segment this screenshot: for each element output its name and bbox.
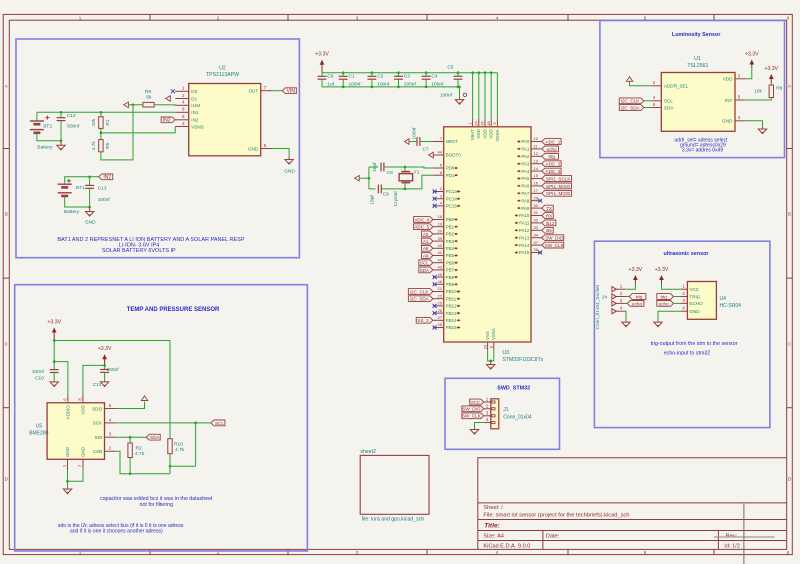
svg-text:PA15: PA15 xyxy=(519,250,530,255)
U3 pin 29 PA8 stub xyxy=(531,200,542,202)
svg-text:VDD: VDD xyxy=(482,129,487,138)
wire-entry arrow NRST xyxy=(404,139,409,145)
frame tick right 1 xyxy=(787,148,793,150)
wire C13 top lead xyxy=(89,177,91,186)
svg-text:PA13: PA13 xyxy=(519,235,530,240)
global label RX xyxy=(542,213,553,219)
unconnected circle near gnd xyxy=(463,93,466,96)
wire C2 bottom lead xyxy=(371,79,373,87)
U3 pin 37 PA14 stub xyxy=(531,244,542,246)
svg-text:3: 3 xyxy=(356,15,359,20)
junction rail C4 bottom xyxy=(425,86,428,89)
svg-text:SCK: SCK xyxy=(93,421,103,426)
wire VDD rail drop 24 xyxy=(478,73,480,119)
U3 BOOT0 link xyxy=(432,154,434,156)
junction rail drop 24 xyxy=(477,71,480,74)
wire U5 gnd drop xyxy=(67,481,69,488)
svg-text:VDDA: VDDA xyxy=(495,129,500,141)
capacitor C6 xyxy=(318,75,327,77)
wire crystal left link xyxy=(369,166,378,168)
title block row line 2 xyxy=(478,519,787,521)
svg-text:TX: TX xyxy=(546,206,552,211)
U3 pin 40 PB4 stub xyxy=(433,247,444,249)
svg-text:38: 38 xyxy=(534,247,539,252)
svg-text:VIN: VIN xyxy=(287,89,296,95)
svg-text:42: 42 xyxy=(438,257,443,262)
U2 pin 1 D0 stub xyxy=(175,90,189,92)
svg-text:BT2: BT2 xyxy=(43,124,52,130)
no-connect U3 PA15 xyxy=(538,251,542,255)
svg-text:28: 28 xyxy=(438,322,443,327)
frame tick right 2 xyxy=(787,277,793,279)
svg-text:13: 13 xyxy=(534,158,539,163)
wire U4 VCC to +3.3V xyxy=(662,283,681,289)
wire-entry arrow U2 D1 xyxy=(166,96,171,102)
svg-text:4.7k: 4.7k xyxy=(91,141,97,151)
U4 pin 2 TRIG stub xyxy=(680,296,687,298)
svg-text:+3.3V: +3.3V xyxy=(764,66,778,72)
frame tick bottom 4 xyxy=(567,549,569,554)
U4 pin 4 GND stub xyxy=(680,310,687,312)
junction rail C1 top xyxy=(342,71,345,74)
wire C1 top lead xyxy=(342,73,344,77)
svg-text:3: 3 xyxy=(356,550,359,555)
svg-text:PA8: PA8 xyxy=(521,198,530,203)
J4 pin 1 line xyxy=(615,288,626,290)
svg-text:R10: R10 xyxy=(174,441,183,447)
U2 pin 3 VSNS stub xyxy=(175,126,189,128)
global label A9 xyxy=(421,253,432,259)
U3 pin 22 PB11 stub xyxy=(433,298,444,300)
no-connect U3 PB12 xyxy=(433,304,437,308)
svg-text:SW_CLK: SW_CLK xyxy=(545,243,565,248)
svg-text:46: 46 xyxy=(438,279,443,284)
svg-text:27: 27 xyxy=(438,315,443,320)
global label SW_CLK xyxy=(542,242,564,248)
wire R10 bottom lead xyxy=(169,454,171,474)
resistor R1 xyxy=(99,117,103,129)
wire VDD rail drop 48 xyxy=(490,73,492,119)
wire J4 pin3 to echo xyxy=(626,302,627,304)
svg-text:C3: C3 xyxy=(404,74,410,80)
U1 pin 4 SCL stub xyxy=(651,100,661,102)
title block gray rev line xyxy=(714,536,775,538)
wire VSS down xyxy=(488,350,494,361)
junction rail C1 bottom xyxy=(342,86,345,89)
global label echo (J4) xyxy=(627,301,644,307)
global label SPI1_MISO xyxy=(542,183,572,189)
svg-text:10k: 10k xyxy=(91,118,97,126)
U2 pin 4 ILIM stub xyxy=(175,104,189,106)
frame tick left 2 xyxy=(3,277,9,279)
ground U1 xyxy=(762,128,764,130)
junction VSS/VSSA gnd xyxy=(489,360,492,363)
svg-text:48: 48 xyxy=(486,121,491,126)
frame tick top 2 xyxy=(287,14,289,20)
svg-text:44: 44 xyxy=(438,150,443,155)
svg-text:2: 2 xyxy=(217,15,220,20)
SWD section box xyxy=(445,378,560,449)
frame tick left 3 xyxy=(3,407,9,409)
capacitor C11 xyxy=(100,369,109,371)
U1 pin 1 VDD stub xyxy=(735,78,746,80)
svg-text:D1: D1 xyxy=(191,96,197,101)
svg-text:PB1: PB1 xyxy=(446,224,455,229)
svg-text:Battery: Battery xyxy=(37,145,53,151)
global label SW_DIO xyxy=(542,235,564,241)
wire SDA link xyxy=(644,107,652,109)
luminosity section box xyxy=(600,21,785,158)
wire C7 to NRST xyxy=(420,141,433,143)
svg-text:100nf: 100nf xyxy=(349,81,362,87)
svg-text:CSB: CSB xyxy=(93,449,102,454)
global label B5 xyxy=(542,227,553,233)
no-connect U3 PB15 xyxy=(433,326,437,330)
svg-text:6: 6 xyxy=(787,15,790,20)
svg-text:VDD: VDD xyxy=(489,129,494,138)
frame tick top 3 xyxy=(426,14,428,20)
wire crystal bottom net xyxy=(381,175,433,189)
J1 pin 4 stub xyxy=(484,422,491,424)
junction rail C4 top xyxy=(425,71,428,74)
svg-text:A0: A0 xyxy=(423,232,429,237)
frame tick top 4 xyxy=(567,14,569,20)
op-amp U2 body xyxy=(189,84,261,156)
svg-text:39: 39 xyxy=(438,236,443,241)
battery/solar section box xyxy=(16,39,299,258)
svg-text:R2: R2 xyxy=(136,445,142,451)
wire BT1 minus to gnd xyxy=(65,196,90,207)
U3 bottom pin 8 VSSA stub xyxy=(493,342,495,350)
global label VIN xyxy=(282,88,296,94)
svg-text:SCL: SCL xyxy=(664,99,673,104)
svg-text:5: 5 xyxy=(644,15,647,20)
svg-text:PB14: PB14 xyxy=(446,318,457,323)
svg-text:not for filtering: not for filtering xyxy=(140,502,174,508)
J1 pin 4 socket mark xyxy=(492,421,495,423)
junction R1/R5/VSNS xyxy=(100,132,103,135)
svg-text:SDI: SDI xyxy=(95,435,103,440)
wire-entry arrow BOOT0 xyxy=(429,152,434,158)
global label SW_CLK (J1) xyxy=(462,413,484,419)
wire R10 top lead xyxy=(169,341,171,439)
U5 pin 2 CSB stub xyxy=(105,450,116,452)
junction crystal top xyxy=(404,166,407,169)
wire cap bank top rail xyxy=(322,72,497,74)
title block outline xyxy=(478,458,787,550)
wire to VDD pin xyxy=(83,365,105,394)
svg-text:PA6: PA6 xyxy=(521,184,530,189)
svg-text:PB2: PB2 xyxy=(446,232,455,237)
wire C10 bottom lead xyxy=(53,373,55,382)
svg-text:OUT: OUT xyxy=(248,89,258,94)
wire U1 GND run xyxy=(746,121,763,128)
U3 pin 33 PA12 stub xyxy=(531,229,542,231)
global label A0 xyxy=(421,231,432,237)
svg-text:SW_DIO: SW_DIO xyxy=(545,236,564,241)
U3 pin 26 PB13 stub xyxy=(433,312,444,314)
svg-text:PB15: PB15 xyxy=(446,325,457,330)
global label VCC (J1) xyxy=(470,399,484,405)
global label SCL (U5) xyxy=(211,420,225,426)
wire R1 bottom lead xyxy=(100,128,102,133)
wire +3.3V down xyxy=(53,341,55,370)
capacitor C4 xyxy=(422,75,431,77)
wire C6 bottom lead xyxy=(321,79,323,87)
svg-text:echo-input to stm32: echo-input to stm32 xyxy=(664,351,711,357)
junction rail C5 bottom xyxy=(457,86,460,89)
ground BT2/C12 xyxy=(60,141,62,146)
svg-text:C12: C12 xyxy=(67,113,76,119)
wire U4 echo link xyxy=(674,302,681,304)
junction VDDIO branch xyxy=(53,360,56,363)
svg-text:TSL2561: TSL2561 xyxy=(687,63,708,69)
svg-text:VSS: VSS xyxy=(485,331,490,340)
svg-text:IN2: IN2 xyxy=(103,175,111,181)
frame tick top 5 xyxy=(713,14,715,20)
wire arrow to crystal xyxy=(360,177,369,179)
power +3.3V rail xyxy=(321,63,323,73)
svg-text:trig: trig xyxy=(660,294,667,299)
svg-text:100nf: 100nf xyxy=(440,93,453,99)
global label B12 xyxy=(542,220,556,226)
svg-text:33: 33 xyxy=(534,225,539,230)
capacitor C5 xyxy=(454,75,463,77)
capacitor C12 xyxy=(57,117,66,119)
svg-text:PA11: PA11 xyxy=(519,221,530,226)
junction rail C5 top xyxy=(457,71,460,74)
U3 pin 6 PD1 stub xyxy=(433,174,444,176)
U5 pin 4 SCK stub xyxy=(105,422,116,424)
svg-text:echo: echo xyxy=(632,301,642,306)
svg-text:16: 16 xyxy=(534,181,539,186)
svg-text:PB5: PB5 xyxy=(446,253,455,258)
capacitor C10 xyxy=(50,369,59,371)
svg-text:Sheet: /: Sheet: / xyxy=(483,505,503,511)
global label ADC_2 xyxy=(542,161,561,167)
svg-text:Size: A4: Size: A4 xyxy=(483,534,504,540)
svg-text:R9: R9 xyxy=(145,89,151,95)
svg-text:4: 4 xyxy=(496,550,499,555)
global label echo xyxy=(542,146,559,152)
U5 pin 5 SDO stub xyxy=(105,408,116,410)
svg-text:R1: R1 xyxy=(105,119,111,125)
U3 pin 15 PA5 stub xyxy=(531,178,542,180)
svg-text:VCC: VCC xyxy=(470,400,480,405)
U1 pin 6 SDA stub xyxy=(651,107,661,109)
svg-text:A1: A1 xyxy=(423,239,429,244)
title block col line 1 xyxy=(542,531,544,550)
wire R8 top lead xyxy=(770,83,772,85)
junction rail C2 top xyxy=(371,71,374,74)
svg-text:5k: 5k xyxy=(146,94,152,100)
junction cap bank gnd drop xyxy=(458,86,461,89)
svg-text:36: 36 xyxy=(480,121,485,126)
svg-text:PA10: PA10 xyxy=(519,213,530,218)
svg-text:4: 4 xyxy=(496,15,499,20)
wire U4 GND run xyxy=(658,311,680,321)
svg-text:17: 17 xyxy=(534,188,539,193)
junction rail drop 36 xyxy=(484,71,487,74)
svg-text:C9: C9 xyxy=(383,191,389,197)
wire BT1 plus riser xyxy=(65,177,99,184)
svg-text:PB6: PB6 xyxy=(446,260,455,265)
U3 top pin 48 VDD stub xyxy=(490,119,492,127)
global label SPI1_MOSI xyxy=(542,190,572,196)
svg-text:trig-output from the stm to th: trig-output from the stm to the sensor xyxy=(651,341,738,347)
wire VDD rail drop 9 xyxy=(496,73,498,119)
svg-text:PA0: PA0 xyxy=(521,139,530,144)
svg-text:GND: GND xyxy=(284,168,295,174)
U3 pin 3 PC14 stub xyxy=(433,198,444,200)
svg-text:ECHO: ECHO xyxy=(689,301,703,306)
svg-text:3.3v= addres 0x49: 3.3v= addres 0x49 xyxy=(682,147,723,153)
wire SDI to SDA xyxy=(116,436,147,438)
svg-text:SOLAR BATTERY 6VOLTS IP: SOLAR BATTERY 6VOLTS IP xyxy=(102,248,176,254)
U3 pin 4 PC15 stub xyxy=(433,205,444,207)
power +3.3V (U1 VDD) xyxy=(751,63,753,68)
svg-text:+3.3V: +3.3V xyxy=(315,52,329,58)
svg-text:C5: C5 xyxy=(447,64,453,70)
svg-text:PB12: PB12 xyxy=(446,304,457,309)
svg-text:Title:: Title: xyxy=(484,523,500,530)
svg-text:100nf: 100nf xyxy=(32,369,45,375)
wire crystal top net xyxy=(384,167,433,168)
svg-text:PD0: PD0 xyxy=(446,166,455,171)
capacitor C13 xyxy=(85,184,94,186)
svg-text:B: B xyxy=(5,212,8,217)
global label I2C_CLK (U1) xyxy=(619,98,644,104)
svg-text:SPI1_MOSI: SPI1_MOSI xyxy=(546,191,570,196)
svg-text:VDD: VDD xyxy=(476,129,481,138)
wire VDD rail drop 1 xyxy=(472,73,474,119)
svg-text:GND: GND xyxy=(689,309,700,314)
svg-text:4.7k: 4.7k xyxy=(135,451,145,457)
wire J4 pin4 to gnd xyxy=(625,311,627,321)
svg-text:18pf: 18pf xyxy=(369,195,375,205)
svg-text:B5: B5 xyxy=(546,228,552,233)
svg-text:1uf: 1uf xyxy=(327,81,334,87)
wire SCK to SCL xyxy=(116,422,211,424)
J4 pin 1 socket xyxy=(612,287,616,292)
ground C10 xyxy=(53,380,55,383)
J1 pin 2 socket mark xyxy=(492,408,495,410)
global label I2C_CLK xyxy=(408,289,433,295)
svg-text:B12: B12 xyxy=(546,221,555,226)
svg-text:TPS2113APW: TPS2113APW xyxy=(206,72,239,78)
svg-text:C13: C13 xyxy=(98,186,107,192)
svg-text:KiCad E.D.A. 9.0.0: KiCad E.D.A. 9.0.0 xyxy=(483,544,530,550)
wire J4 pin2 to trig xyxy=(626,296,629,298)
svg-text:PB8: PB8 xyxy=(446,275,455,280)
svg-text:Id: 1/2: Id: 1/2 xyxy=(724,544,740,550)
svg-text:18: 18 xyxy=(438,214,443,219)
junction SCL pullup xyxy=(194,422,197,425)
global label I2C_SDA xyxy=(408,296,433,302)
ultrasonic section box xyxy=(594,241,770,427)
svg-text:37: 37 xyxy=(534,240,539,245)
svg-text:GND: GND xyxy=(722,119,733,124)
wire R9 to U2 ILIM xyxy=(154,104,175,107)
svg-text:Luminosity Sensor: Luminosity Sensor xyxy=(672,32,721,38)
frame tick bottom 1 xyxy=(149,549,151,554)
svg-text:INT: INT xyxy=(725,98,733,103)
svg-text:VDD: VDD xyxy=(723,77,733,82)
wire BT2 minus to gnd rail xyxy=(37,133,61,141)
svg-text:+3.3V: +3.3V xyxy=(629,267,643,273)
J4 pin 3 socket xyxy=(612,301,616,306)
svg-text:PA7: PA7 xyxy=(521,191,530,196)
wire C3 bottom lead xyxy=(398,79,400,87)
J4 pin 4 line xyxy=(615,310,626,312)
svg-text:12: 12 xyxy=(534,151,539,156)
svg-text:PB0: PB0 xyxy=(446,217,455,222)
wire Y1 bottom lead xyxy=(404,183,406,189)
svg-text:A9: A9 xyxy=(423,253,429,258)
svg-text:C4: C4 xyxy=(431,74,437,80)
junction U5 gnd xyxy=(66,480,69,483)
wire VSNS run xyxy=(101,127,175,133)
svg-text:19: 19 xyxy=(438,221,443,226)
U4 pin 1 VCC stub xyxy=(680,288,687,290)
wire cap bank to ground xyxy=(459,87,461,100)
U3 pin 18 PB0 stub xyxy=(433,219,444,221)
svg-text:I2C_CLK: I2C_CLK xyxy=(621,99,641,104)
wire cap bank bottom rail xyxy=(322,86,460,88)
frame tick bottom 2 xyxy=(287,549,289,554)
J4 pin 4 socket xyxy=(612,309,616,314)
U3 top pin 36 VDD stub xyxy=(484,119,486,127)
svg-text:+3.3V: +3.3V xyxy=(47,320,61,326)
svg-text:R8: R8 xyxy=(776,85,782,91)
wire C4 top lead xyxy=(425,73,427,77)
svg-text:VDD: VDD xyxy=(81,405,86,414)
svg-text:+3.3V: +3.3V xyxy=(655,267,669,273)
svg-text:PC14: PC14 xyxy=(446,196,458,201)
wire-entry arrow ILIM net xyxy=(124,102,129,108)
U3 pin 20 PB2 stub xyxy=(433,233,444,235)
junction rail C3 top xyxy=(397,71,400,74)
power +3.3V (J4) xyxy=(634,278,636,283)
svg-text:C6: C6 xyxy=(327,74,333,80)
J4 pin 3 line xyxy=(615,302,626,304)
svg-text:Conn_01x04: Conn_01x04 xyxy=(503,415,532,421)
svg-text:J1: J1 xyxy=(503,407,509,413)
global label I2C_SDA (U1) xyxy=(619,105,644,111)
wire BT2 plus riser xyxy=(36,112,38,121)
svg-text:34: 34 xyxy=(534,232,539,237)
svg-text:TEMP AND PRESSURE SENSOR: TEMP AND PRESSURE SENSOR xyxy=(127,307,220,313)
svg-text:trig: trig xyxy=(636,294,643,299)
capacitor C2 xyxy=(368,75,377,77)
svg-text:C1: C1 xyxy=(349,74,355,80)
svg-text:U3: U3 xyxy=(502,350,509,356)
J1 pin 2 stub xyxy=(484,408,491,410)
U3 pin 17 PA7 stub xyxy=(531,192,542,194)
wire Y1 top lead xyxy=(404,167,406,172)
title block row line 3 xyxy=(478,530,787,532)
frame tick top 1 xyxy=(149,14,151,20)
svg-text:C7: C7 xyxy=(423,147,429,153)
wire C7 left lead xyxy=(409,141,417,143)
stray vertical cursor line xyxy=(743,504,745,564)
no-connect U2 pin D0 xyxy=(171,89,175,93)
svg-text:SPI1_SCLK: SPI1_SCLK xyxy=(546,176,571,181)
U3 pin 21 PB10 stub xyxy=(433,291,444,293)
crystal Y1 xyxy=(401,171,410,173)
U3 pin 10 PA0 stub xyxy=(531,141,542,143)
wire C2 top lead xyxy=(371,73,373,77)
